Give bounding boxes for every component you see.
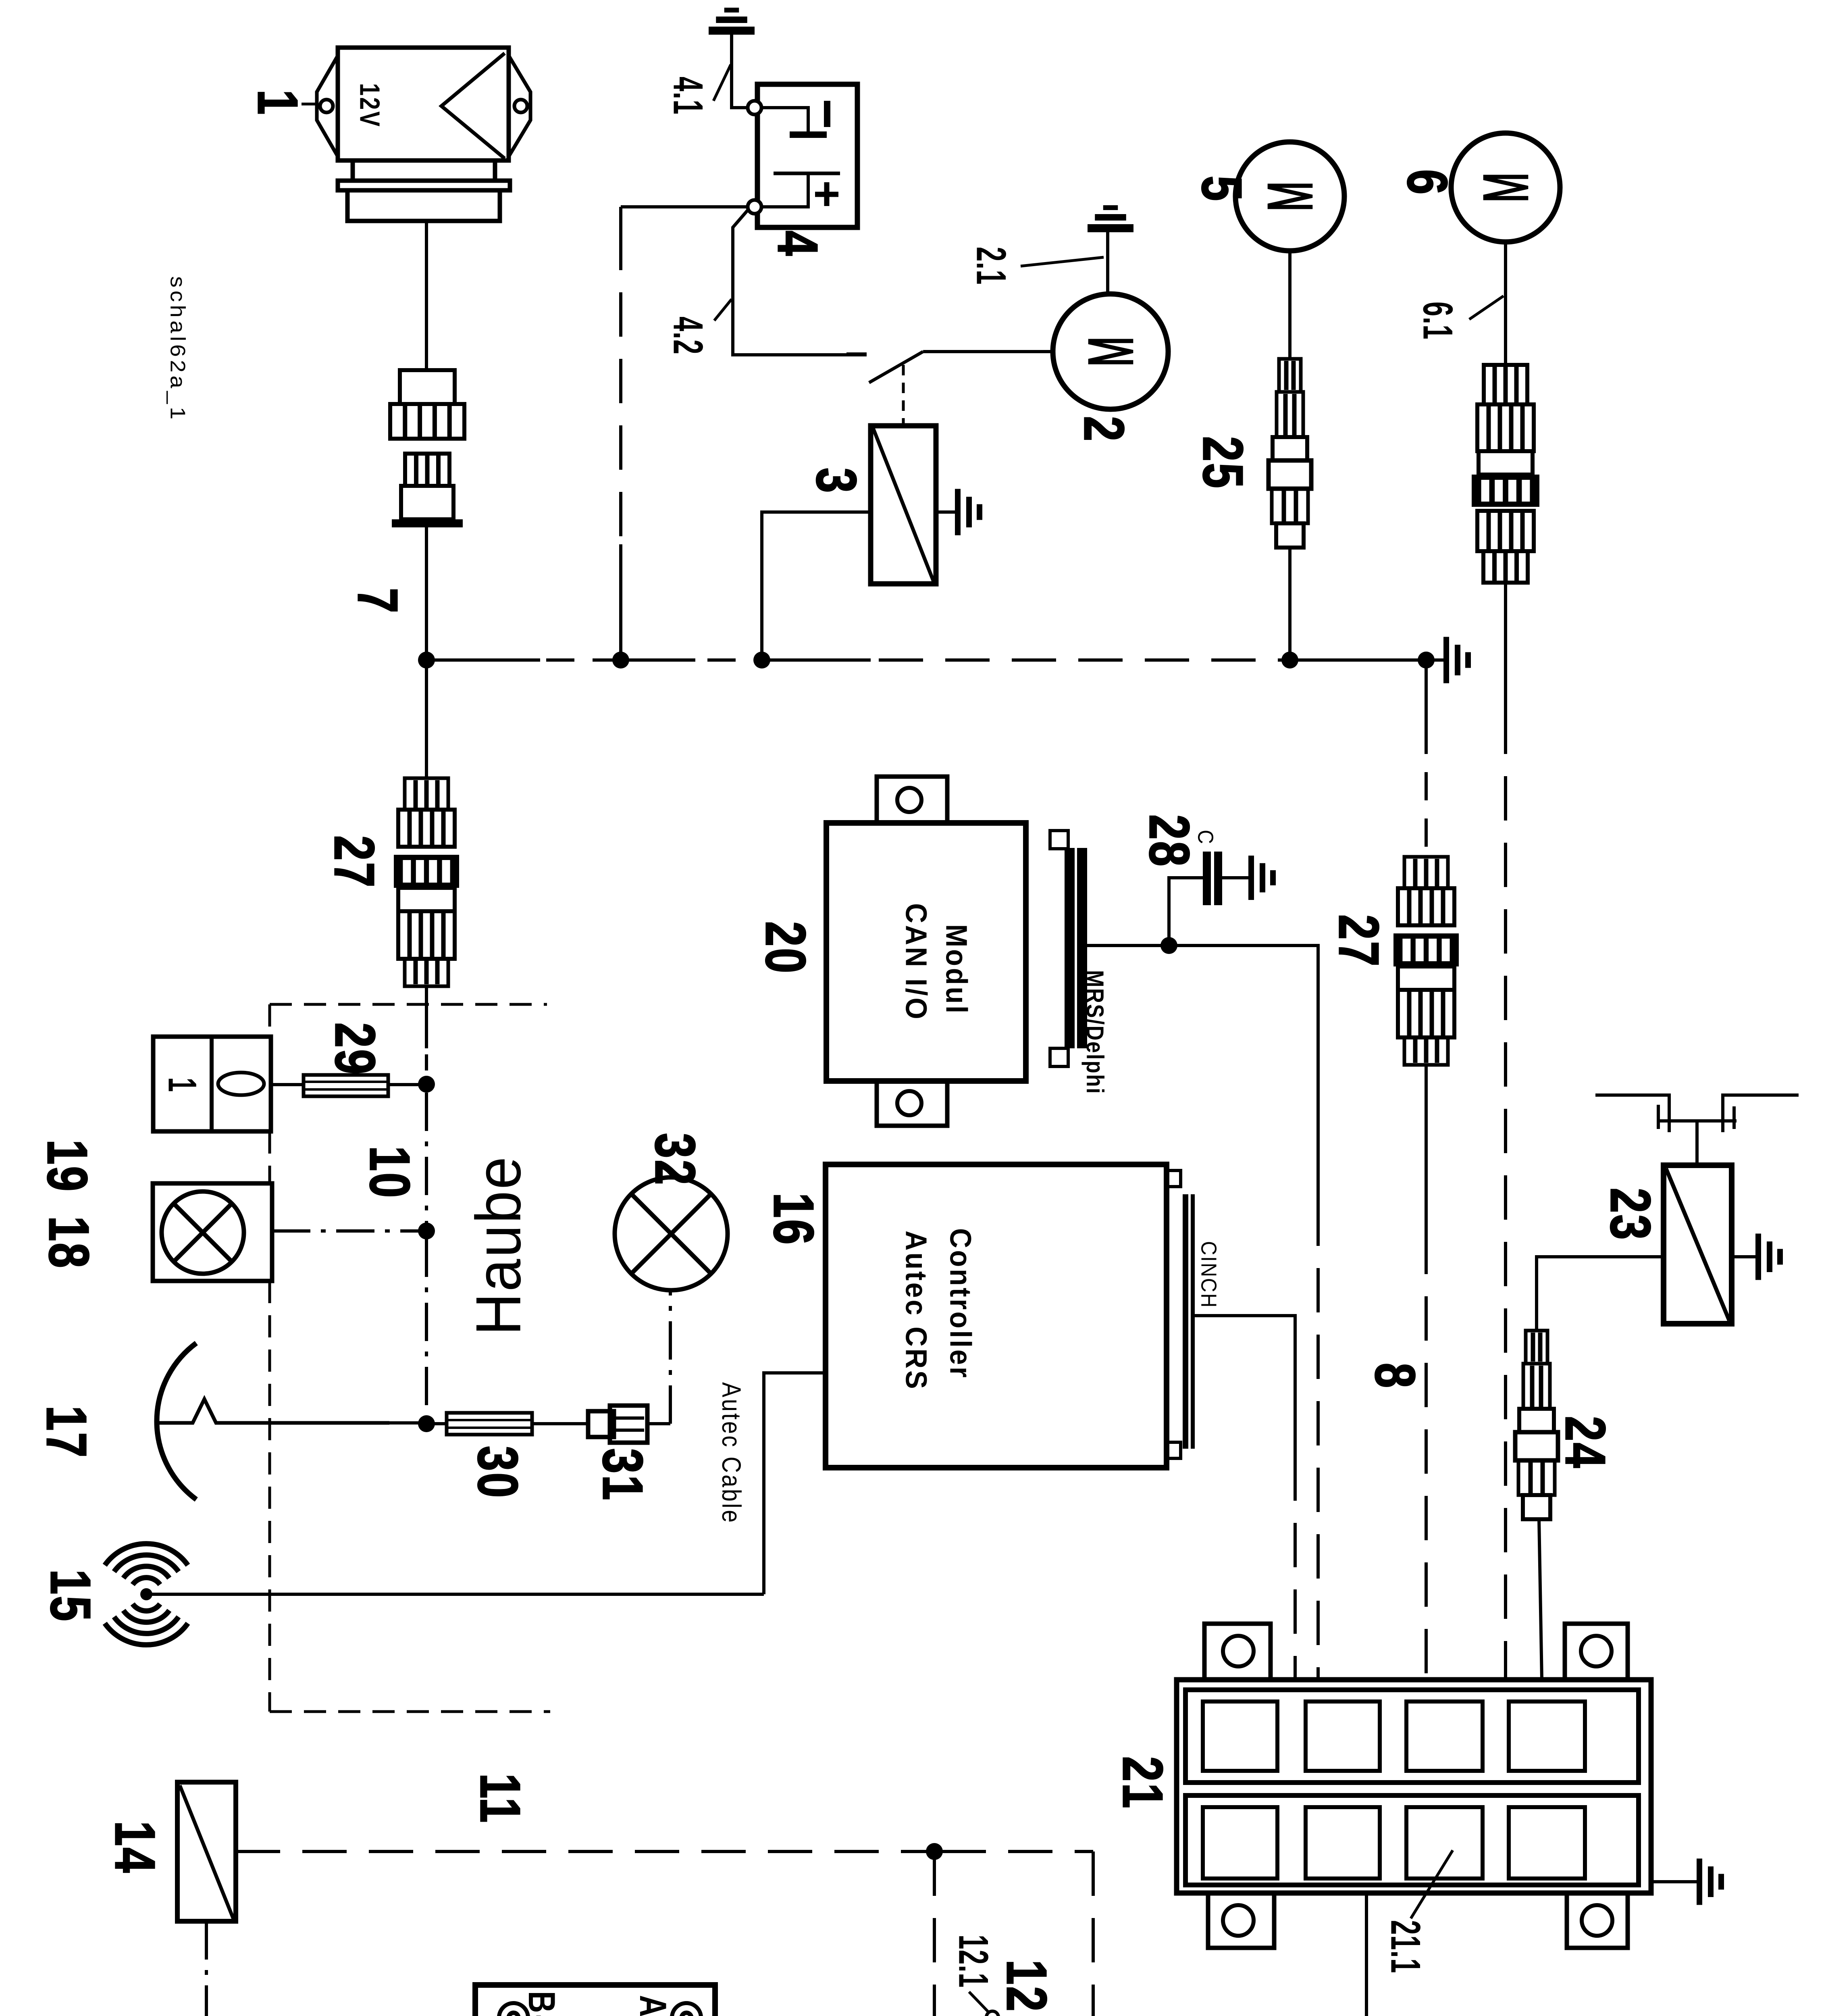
svg-text:2: 2 [1073, 416, 1136, 443]
Autec cable wire to controller 16 [764, 1373, 825, 1594]
svg-text:2.1: 2.1 [968, 247, 1015, 285]
motor M 5 [1235, 142, 1344, 251]
leader 21.1 [1411, 1850, 1453, 1918]
capacitor 28 [1203, 852, 1211, 905]
box 1 chevron mark [441, 53, 505, 158]
svg-text:MRS/Delphi: MRS/Delphi [1081, 970, 1108, 1095]
svg-text:schal62a_1: schal62a_1 [166, 276, 189, 423]
wire 27 to fuse junction [425, 986, 428, 1048]
wire connector 25 to bus [1288, 548, 1292, 660]
wire relay 23 to connector 24 [1537, 1257, 1664, 1331]
leader 4.1 [713, 65, 731, 101]
leader 4.2 [714, 299, 732, 321]
junction node 29/10 [418, 1076, 435, 1093]
bus wire segment to connector 27 branch [1290, 658, 1426, 662]
Haube enclosure dashed top [270, 1003, 547, 1006]
module 20 top tab [877, 777, 947, 823]
relay box 14 [177, 1782, 236, 1921]
wire battery plus to bus [621, 205, 748, 208]
junction node connector 27 branch [1418, 652, 1435, 669]
mech link switch to solenoid 3 [902, 365, 905, 424]
junction node battery feed [612, 652, 629, 669]
connector pair below 1 - upper half [400, 370, 455, 404]
svg-text:5: 5 [1190, 176, 1254, 202]
ground above battery 4.1 [709, 27, 755, 35]
svg-text:30: 30 [466, 1446, 530, 1500]
leader 6.1 [1469, 296, 1504, 319]
wire motor 5 to connector 25 [1288, 251, 1292, 359]
svg-text:4.2: 4.2 [665, 317, 711, 355]
svg-text:25: 25 [1192, 436, 1255, 490]
svg-text:B-: B- [520, 1991, 563, 2016]
wire connector 31 to lamp 32 [647, 1422, 670, 1425]
fuse 29 [304, 1075, 388, 1096]
dashed box right side upper cluster [1092, 1851, 1095, 2016]
line 10 dash-dot upper [425, 1093, 428, 1231]
svg-text:31: 31 [591, 1448, 655, 1502]
terminal 12.1 top upper [986, 2011, 998, 2016]
grid 21 tab bottom-right [1567, 1893, 1628, 1948]
junction node 18/10 [418, 1223, 435, 1239]
ground at capacitor 28 [1248, 856, 1254, 900]
junction node 17/10 [418, 1415, 435, 1432]
dashed bus from relay 14 [236, 1850, 927, 1853]
controller box 16 [826, 1164, 1167, 1468]
box 1 right mounting flange [509, 56, 530, 156]
switch contact stub [846, 352, 867, 356]
connector pair below 1 - lower half [405, 454, 449, 486]
junction node dashed bus 22 coil branch [926, 1843, 943, 1860]
svg-text:CAN I/O: CAN I/O [899, 903, 933, 1021]
grid 21 row 2 frame [1185, 1795, 1639, 1885]
svg-text:6: 6 [1396, 169, 1459, 196]
connector 25 [1279, 359, 1301, 392]
wire connector 27 right to grid (dashed) [1425, 1065, 1428, 1230]
svg-text:29: 29 [324, 1023, 387, 1076]
svg-text:18: 18 [37, 1216, 101, 1270]
wire module 20 to grid 21 [1169, 946, 1318, 1202]
svg-text:23: 23 [1599, 1188, 1662, 1241]
leader 2.1 [1021, 257, 1104, 266]
module 11 upper terminal B- [499, 2003, 528, 2016]
box 1 connector neck [353, 160, 495, 181]
wire to capacitor 28 [1169, 878, 1203, 946]
svg-text:4: 4 [766, 231, 830, 257]
junction node solenoid 3 drop [753, 652, 770, 669]
ground at relay 23 [1732, 1255, 1757, 1258]
wire 4.2 from battery plus [733, 210, 867, 355]
battery plus sign [824, 182, 830, 206]
svg-text:15: 15 [39, 1569, 102, 1623]
connector 26 [1484, 365, 1527, 404]
svg-text:28: 28 [1138, 814, 1201, 868]
svg-text:CINCH: CINCH [1197, 1241, 1221, 1308]
junction node capacitor 28 [1160, 937, 1177, 954]
svg-text:12: 12 [995, 1960, 1059, 2013]
wire motor 2 to switch [923, 350, 1053, 353]
motor M 2 [1053, 294, 1168, 409]
box 1 left mounting flange [317, 56, 338, 156]
svg-text:M: M [1255, 181, 1325, 212]
svg-text:1: 1 [161, 1077, 203, 1092]
bus wire segment to motor 5 branch [762, 658, 871, 662]
svg-text:Controller: Controller [944, 1228, 977, 1379]
junction node motor 5 branch [1281, 652, 1298, 669]
bus wire segment to solenoid drop [621, 658, 695, 662]
wire node to fuse 30 [426, 1422, 447, 1425]
ground above motor 2 [1088, 224, 1133, 232]
module 20 connector tabs [1050, 831, 1068, 849]
battery minus terminal [748, 101, 761, 115]
connector 27 left [405, 778, 448, 810]
svg-text:M: M [1470, 173, 1541, 203]
battery minus plate [761, 108, 808, 131]
connector hooks above relay 23 [1595, 1095, 1669, 1132]
connector 27 right [1404, 857, 1448, 888]
antenna 17 wire with peak [157, 1399, 389, 1423]
svg-text:27: 27 [1327, 914, 1391, 968]
module 20 bottom tab [877, 1081, 947, 1126]
line 10 dash-dot lower [425, 1239, 428, 1424]
CINCH connector bar [1183, 1194, 1188, 1449]
svg-text:27: 27 [323, 835, 386, 889]
wire ground to battery minus [732, 31, 748, 108]
grid 21 tab top-left [1204, 1624, 1271, 1680]
wire hooks to relay 23 [1695, 1121, 1699, 1165]
svg-text:32: 32 [644, 1133, 707, 1187]
wire connector 24 to grid [1539, 1519, 1542, 1680]
svg-text:M: M [1075, 337, 1146, 367]
battery plus terminal [748, 200, 761, 214]
battery minus sign [824, 101, 830, 127]
junction node at wire 7 [418, 652, 435, 669]
wire 19 to fuse 29 [271, 1083, 304, 1086]
wire connector 26 down (dashed) [1504, 583, 1507, 710]
lamp box 18 [153, 1183, 272, 1281]
svg-text:12V: 12V [354, 83, 385, 128]
wire fuse 29 to node [388, 1083, 419, 1086]
motor M 6 [1451, 133, 1560, 242]
CINCH connector tabs [1167, 1170, 1181, 1187]
svg-text:24: 24 [1554, 1416, 1617, 1470]
grid 21 row 1 frame [1185, 1690, 1639, 1783]
CAN I/O module box 20 [826, 823, 1026, 1081]
module 20 connector bar MRS/Delphi [1065, 848, 1075, 1048]
wire CINCH to grid [1195, 1316, 1295, 1456]
wire ground to motor 2 [1106, 228, 1109, 294]
bus end segment to ground [1426, 658, 1445, 662]
svg-text:8: 8 [1364, 1363, 1427, 1389]
svg-text:C: C [1194, 830, 1218, 846]
svg-text:21.1: 21.1 [1382, 1920, 1429, 1974]
connector 31 [588, 1411, 614, 1437]
grid 21 row 1 squares [1203, 1702, 1277, 1771]
wire 1 to connector [425, 221, 428, 370]
switch blade 2.1 [869, 352, 923, 383]
connector 24 [1526, 1331, 1547, 1364]
switch box 19 [153, 1037, 271, 1131]
svg-text:Haube: Haube [463, 1155, 534, 1335]
svg-text:16: 16 [762, 1193, 826, 1246]
svg-text:14: 14 [104, 1821, 167, 1874]
control box 1 body (12V) [338, 48, 509, 160]
wire label-1 tick [302, 103, 318, 106]
relay box 23 [1664, 1165, 1732, 1324]
bus wire segment 7 to battery [426, 658, 540, 662]
svg-text:7: 7 [346, 588, 410, 614]
leader 12.1 top upper [969, 1992, 989, 2013]
lamp 32 [615, 1177, 728, 1290]
wire module 20 output [1087, 944, 1169, 947]
Haube enclosure dashed bottom [270, 1710, 550, 1713]
solenoid 3 box [871, 426, 936, 584]
module 11 upper terminal A2 [672, 2003, 701, 2016]
svg-text:12.1: 12.1 [950, 1935, 997, 1988]
ground at solenoid 3 [936, 510, 956, 514]
antenna 15 radio symbol [140, 1588, 152, 1600]
svg-text:Autec CRS: Autec CRS [899, 1231, 933, 1391]
svg-text:21: 21 [1111, 1756, 1175, 1810]
antenna 17 reflector arc [157, 1343, 196, 1500]
module 11 upper box [475, 1985, 715, 2016]
svg-text:Modul: Modul [940, 924, 973, 1015]
battery plus plate [774, 172, 840, 175]
svg-text:A2: A2 [632, 1995, 674, 2016]
svg-text:10: 10 [358, 1146, 422, 1200]
grid 21 row 2 squares [1203, 1807, 1277, 1879]
svg-text:19: 19 [36, 1139, 99, 1193]
svg-text:17: 17 [35, 1406, 98, 1459]
ground at bus end [1443, 637, 1449, 683]
grid 21 outer frame [1177, 1680, 1651, 1893]
svg-text:4.1: 4.1 [665, 77, 711, 115]
svg-text:20: 20 [754, 921, 817, 975]
battery 4 box [757, 84, 857, 227]
wire bus to connector 27 right [1425, 660, 1428, 726]
wire 7 vertical [425, 527, 428, 778]
wire solenoid 3 to bus [762, 512, 871, 660]
svg-text:Autec Cable: Autec Cable [717, 1382, 746, 1524]
fuse 30 [447, 1413, 532, 1435]
dashed branch to coil upper [933, 1851, 936, 2016]
grid 21 tab bottom-left [1208, 1893, 1274, 1948]
wire fuse 30 to connector 31 [532, 1422, 588, 1425]
wire capacitor to ground [1222, 876, 1250, 879]
wire antenna 15 to Autec cable [152, 1593, 764, 1596]
svg-text:3: 3 [805, 468, 868, 494]
svg-text:6.1: 6.1 [1414, 302, 1461, 340]
wire 6.1 motor 6 to connector 26 [1504, 242, 1507, 365]
grid 21 tab top-right [1565, 1624, 1628, 1680]
wire grid 21 to connector 26 lower [1365, 1893, 1368, 2016]
wire 18 to line 10 [272, 1229, 419, 1233]
ground at grid 21 [1651, 1880, 1698, 1883]
mech link relay 14 to switch 13.4 [205, 1921, 208, 2016]
svg-text:1: 1 [246, 90, 310, 116]
Haube enclosure dashed left [268, 1004, 271, 1037]
svg-text:11: 11 [469, 1773, 532, 1824]
